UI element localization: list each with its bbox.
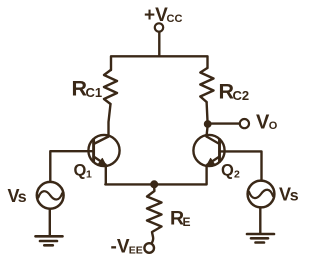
- ground right: [247, 234, 274, 243]
- node E junction: [151, 181, 158, 188]
- terminal -VEE: [144, 243, 154, 253]
- label RC2: [219, 80, 250, 104]
- source VS1: [37, 182, 64, 209]
- svg-text:E: E: [183, 215, 191, 229]
- svg-text:2: 2: [234, 169, 240, 181]
- label Q1: [74, 162, 93, 181]
- wire VS2 to ground: [259, 207, 261, 233]
- label -VEE: [111, 237, 143, 258]
- terminal +VCC: [155, 23, 163, 31]
- label +VCC: [144, 5, 182, 26]
- svg-text:s: s: [18, 189, 27, 206]
- wire VS1 to ground: [49, 209, 51, 236]
- node C2 junction: [204, 121, 211, 128]
- wire Q1 emitter: [105, 166, 107, 184]
- wire RC2 to node C2: [205, 102, 208, 121]
- resistor RE: [147, 187, 162, 243]
- transistor Q1: [88, 135, 119, 166]
- terminal Vo: [240, 119, 249, 128]
- wire node C2 to Vo terminal: [211, 122, 240, 124]
- svg-text:Q: Q: [221, 162, 234, 180]
- svg-text:+V: +V: [144, 5, 168, 26]
- label VS left: [8, 186, 27, 206]
- wire RC1 to Q1 collector: [109, 104, 111, 137]
- svg-text:EE: EE: [129, 245, 143, 257]
- label Vo: [256, 112, 278, 134]
- wire VCC terminal to top rail: [158, 32, 160, 56]
- wire emitter rail: [105, 183, 206, 185]
- svg-text:C2: C2: [233, 88, 250, 103]
- wire Q1 base: [50, 151, 93, 182]
- svg-text:Q: Q: [74, 162, 87, 180]
- ground left: [36, 236, 63, 245]
- label RE: [170, 208, 191, 230]
- resistor RC2: [200, 68, 213, 102]
- svg-text:O: O: [269, 120, 278, 132]
- source VS2: [248, 181, 275, 208]
- label VS right: [279, 185, 299, 205]
- resistor RC1: [104, 70, 117, 104]
- wire node C2 to Q2 collector: [207, 127, 208, 137]
- label RC1: [72, 77, 103, 101]
- svg-text:C1: C1: [86, 85, 103, 100]
- wire Q2 emitter: [205, 166, 207, 184]
- svg-text:CC: CC: [167, 13, 183, 25]
- transistor Q2: [193, 135, 224, 166]
- wire Q2 base: [220, 151, 262, 180]
- label Q2: [221, 162, 240, 181]
- svg-text:1: 1: [86, 169, 92, 181]
- svg-text:-V: -V: [111, 237, 130, 258]
- svg-text:s: s: [290, 188, 299, 205]
- wire top rail: [111, 56, 208, 70]
